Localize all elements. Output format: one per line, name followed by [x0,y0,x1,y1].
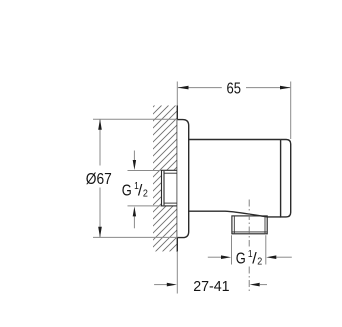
G1/2 wall connector C1 [162,170,178,206]
dimension 65 extension line left (wall line thin part) [176,82,178,294]
label G 1/2 (outlet) [208,235,292,264]
escutcheon flange [177,120,188,238]
dimension 27-41 [154,284,267,286]
body cylinder outline [189,140,281,217]
svg-text:G: G [236,250,246,267]
outlet spigot G1/2 [232,216,267,234]
dimension diameter 67 [93,119,177,237]
outlet centerline [248,200,250,292]
svg-text:65: 65 [227,80,242,97]
dimension 65 [178,82,291,140]
svg-text:G: G [122,182,132,199]
wall hatching [140,74,186,295]
svg-text:2: 2 [143,188,148,200]
svg-text:Ø67: Ø67 [86,171,112,188]
svg-text:2: 2 [257,256,262,268]
svg-text:27-41: 27-41 [193,278,229,295]
label G 1/2 (wall side) [128,151,162,229]
wall face line [176,106,178,252]
body end cap [281,140,291,217]
